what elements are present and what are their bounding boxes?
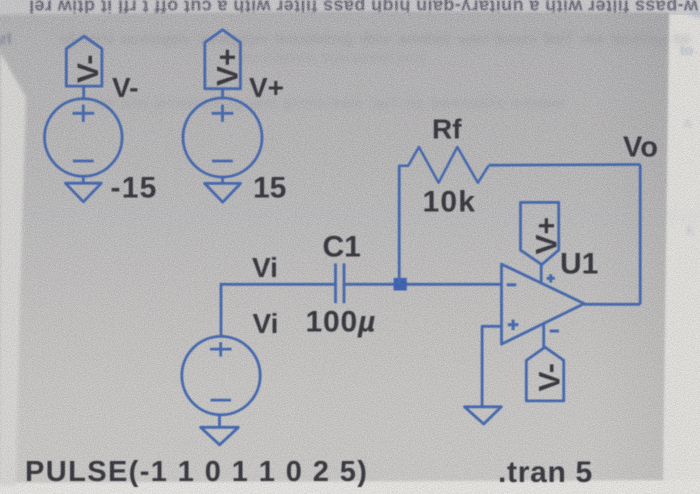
wire — [639, 165, 642, 305]
left page-edge strip — [0, 52, 26, 486]
wire (V- pin) — [542, 323, 545, 347]
capacitor C1 — [336, 263, 345, 303]
junction node — [394, 278, 407, 291]
wire — [221, 177, 224, 184]
flag V+ (top-left rail) — [205, 30, 241, 89]
left-edge cut word fragments — [0, 6, 700, 238]
wire — [344, 283, 502, 286]
wire — [82, 176, 85, 183]
ground — [205, 183, 241, 202]
wire (non-inverting input) — [482, 326, 501, 407]
voltage source V- — [45, 99, 123, 177]
ground — [465, 407, 502, 424]
wire — [398, 166, 401, 284]
wire — [220, 284, 223, 336]
voltage source Vi — [182, 336, 260, 414]
ground — [201, 427, 239, 445]
wire — [221, 89, 224, 99]
voltage source V+ — [183, 98, 262, 177]
wire — [218, 415, 221, 428]
resistor Rf — [398, 147, 488, 183]
faint scan band — [0, 210, 700, 224]
wire (V+ pin) — [540, 265, 543, 284]
top show-through band — [0, 0, 700, 17]
ground — [65, 183, 101, 202]
ghost show-through rows — [60, 31, 691, 112]
flag V- (top-left rail) — [66, 36, 102, 86]
op-amp U1 — [502, 264, 585, 344]
flag V+ (op-amp supply) — [521, 202, 559, 264]
wire — [489, 163, 641, 166]
flag V- (op-amp supply) — [526, 347, 563, 401]
wire — [220, 283, 336, 286]
bottom page-edge strip — [0, 480, 700, 494]
wire — [82, 86, 85, 99]
wire — [584, 303, 640, 306]
